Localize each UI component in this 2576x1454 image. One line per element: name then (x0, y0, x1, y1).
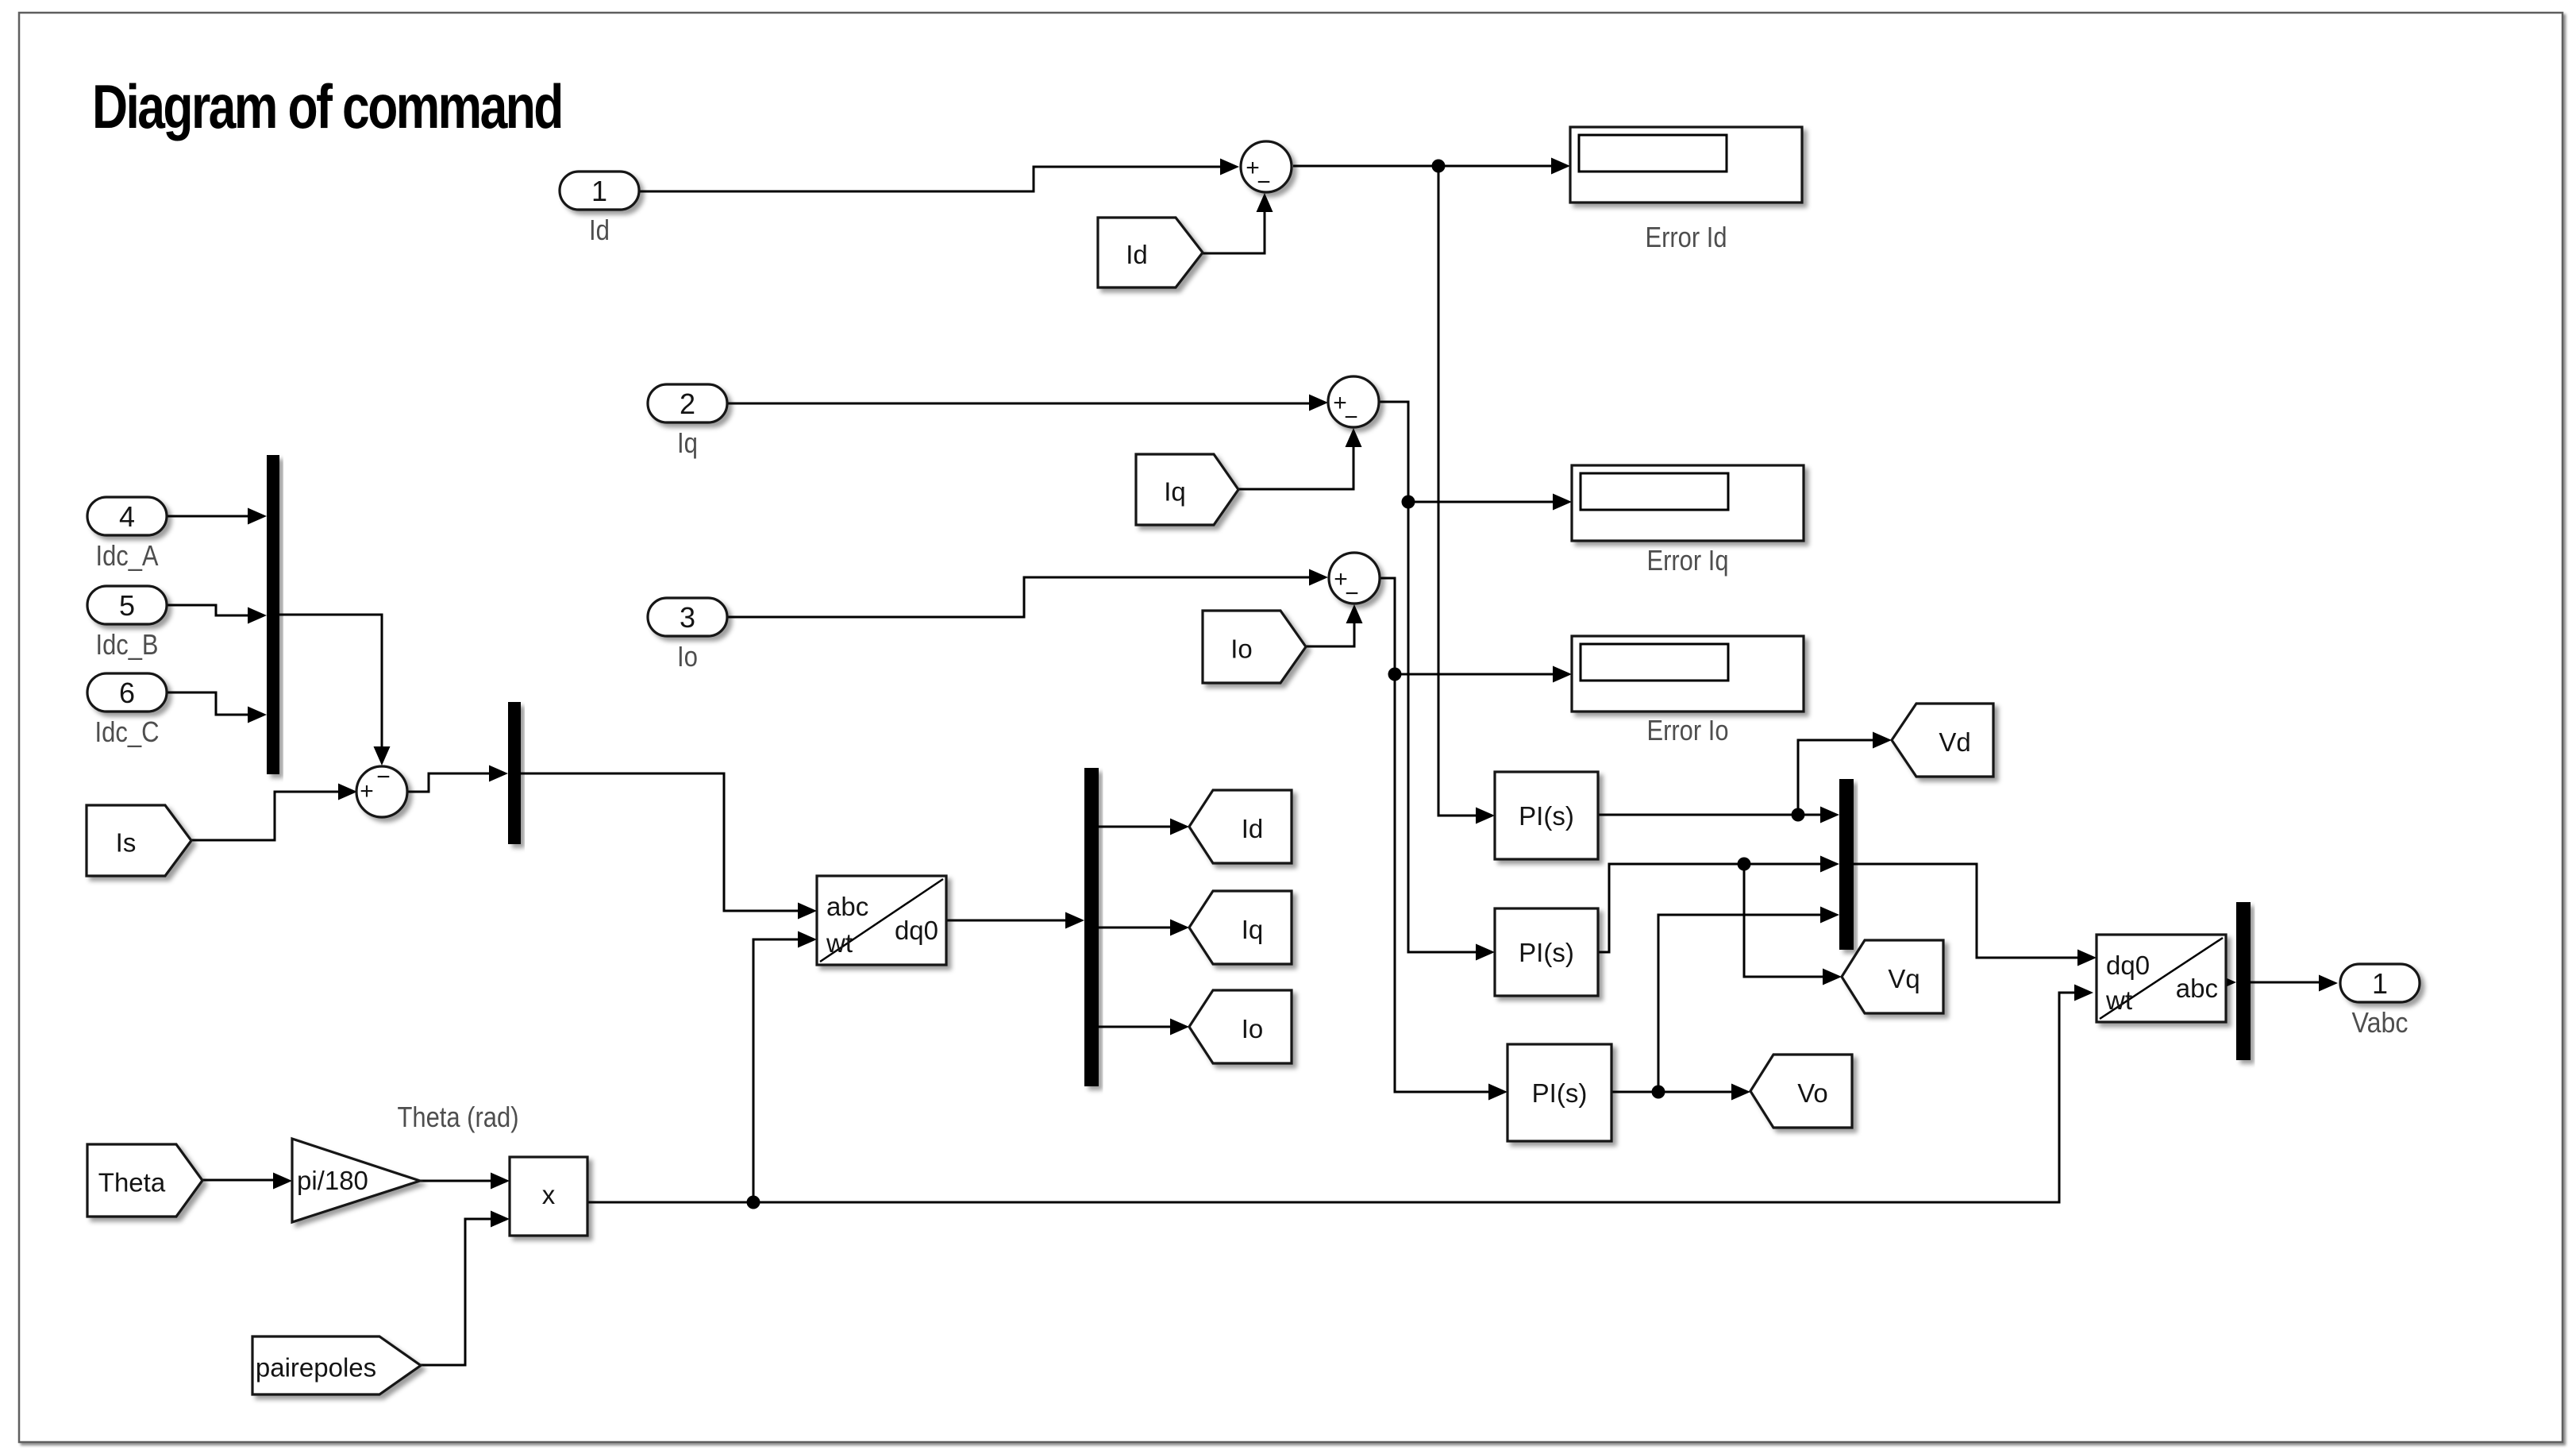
wire From-pairepoles to product (421, 1219, 493, 1365)
arrowhead into Sum2 bottom (1346, 428, 1362, 447)
scope Error Id (1570, 127, 1802, 202)
wire junction to Error Io scope (1395, 673, 1555, 676)
junction dot PI2 output (1738, 858, 1751, 871)
from tag Id (1098, 218, 1203, 287)
from tag Iq (1136, 454, 1238, 525)
wire In2 to Sum2 (726, 403, 1311, 405)
arrowhead into Goto Vq (1823, 969, 1842, 985)
svg-text:pairepoles: pairepoles (256, 1353, 376, 1383)
svg-text:Error Iq: Error Iq (1647, 544, 1729, 577)
wire In1 to Sum1 (640, 167, 1223, 191)
sum block Sum1 (Id error) (1241, 141, 1292, 195)
svg-text:4: 4 (119, 500, 135, 533)
arrowhead into Sum3 bottom (1346, 604, 1363, 623)
wire PI3 to Goto Vo (1611, 1091, 1734, 1093)
wire junction down to PI2 (1408, 502, 1478, 952)
demux Demux2 (2236, 902, 2251, 1060)
abc to dq0 transform block U1 (817, 876, 946, 965)
from tag pairepoles (252, 1336, 421, 1394)
arrowhead into Sum3 left (1309, 569, 1328, 586)
goto tag Iq (1189, 891, 1292, 964)
input port 3 Io (648, 598, 727, 636)
junction dot Sum2 output (1402, 496, 1415, 509)
wire dq0-abc to Demux2 (2226, 982, 2232, 984)
svg-text:+: + (360, 778, 374, 804)
svg-text:Io: Io (677, 640, 698, 673)
svg-text:wt: wt (2105, 985, 2132, 1015)
arrowhead into SumA left (338, 784, 357, 800)
junction dot PI1 output (1792, 808, 1805, 822)
wire abc-dq0 to Demux1 (946, 920, 1068, 922)
arrowhead into Goto Io (1170, 1019, 1189, 1036)
output port 1 Vabc (2340, 964, 2420, 1002)
wire branch up to Goto Vd (1798, 740, 1875, 815)
svg-text:Id: Id (589, 214, 610, 246)
arrowhead into Mux1 port3 (248, 707, 267, 723)
svg-text:Id: Id (1242, 814, 1264, 843)
gain block pi/180 (292, 1139, 420, 1222)
mux Mux3 (1839, 779, 1854, 950)
svg-text:Vd: Vd (1939, 727, 1970, 757)
svg-text:3: 3 (680, 601, 695, 634)
svg-text:Id: Id (1126, 240, 1148, 269)
svg-text:Error Id: Error Id (1646, 221, 1727, 253)
arrowhead into Demux1 (1065, 912, 1084, 929)
from tag Theta (87, 1144, 202, 1217)
svg-text:Vo: Vo (1797, 1078, 1828, 1108)
svg-text:Iq: Iq (677, 426, 698, 459)
arrowhead into product in1 (491, 1173, 510, 1190)
goto tag Io (1189, 990, 1292, 1063)
svg-text:5: 5 (119, 589, 135, 622)
from tag Is (87, 805, 191, 876)
wire Sum3 to junction (1380, 578, 1395, 674)
wire branch up to abc-dq0 wt (753, 939, 800, 1202)
wire From-Iq to Sum2 minus (1238, 434, 1353, 489)
input port 6 Idc_C (87, 673, 167, 712)
arrowhead into Sum1 bottom (1257, 193, 1273, 212)
arrowhead into Goto Iq (1170, 920, 1189, 936)
mux Mux2 (508, 702, 521, 844)
svg-text:Idc_C: Idc_C (95, 715, 160, 748)
arrowhead into Mux3 port3 (1820, 907, 1839, 924)
arrowhead into Mux2 (489, 766, 508, 782)
svg-text:Iq: Iq (1242, 915, 1264, 944)
sum block Sum3 (Io error) (1329, 553, 1380, 607)
svg-text:−: − (1344, 404, 1358, 430)
svg-text:Io: Io (1242, 1014, 1264, 1043)
wire In6 to Mux1 (165, 692, 250, 715)
svg-text:wt: wt (826, 928, 853, 958)
wire In5 to Mux1 (165, 605, 250, 615)
svg-text:Is: Is (116, 828, 137, 858)
svg-text:x: x (542, 1180, 556, 1209)
svg-text:Diagram of command: Diagram of command (92, 71, 562, 141)
wire From-Id to Sum1 minus (1203, 199, 1265, 253)
arrowhead into Mux1 port2 (248, 607, 267, 624)
svg-text:Idc_B: Idc_B (96, 628, 159, 661)
svg-text:dq0: dq0 (895, 916, 938, 945)
svg-text:1: 1 (2372, 967, 2388, 1000)
svg-text:Iq: Iq (1164, 477, 1186, 507)
arrowhead into Mux3 port2 (1820, 856, 1839, 873)
arrowhead into Goto Vd (1873, 732, 1892, 749)
wire In3 to Sum3 (726, 577, 1311, 617)
wire branch down to Goto Vq (1744, 864, 1825, 977)
arrowhead into B1 wt input (798, 931, 817, 948)
wire From-Theta to gain (202, 1179, 275, 1182)
arrowhead into B2 wt input (2074, 985, 2093, 1001)
arrowhead into abc input (798, 903, 817, 920)
wire From-Io to Sum3 minus (1306, 610, 1354, 646)
arrowhead into Sum1 left (1220, 159, 1239, 175)
svg-text:abc: abc (2176, 974, 2218, 1003)
goto tag Vq (1842, 940, 1943, 1013)
mux Mux1 (267, 455, 279, 774)
svg-text:−: − (376, 764, 391, 790)
arrowhead into PI1 (1476, 808, 1495, 824)
arrowhead into Mux3 port1 (1820, 807, 1839, 823)
svg-text:Idc_A: Idc_A (96, 539, 159, 572)
svg-text:−: − (1257, 169, 1271, 195)
arrowhead into product in2 (491, 1211, 510, 1228)
wire Demux1 to Goto Io (1099, 1026, 1172, 1028)
wire PI1 to Mux3 port1 (1598, 814, 1823, 816)
svg-text:Error Io: Error Io (1647, 714, 1729, 746)
wire junction down to PI3 (1395, 674, 1491, 1092)
arrowhead into Demux2 (2217, 974, 2236, 991)
arrowhead into PI3 (1488, 1084, 1507, 1101)
svg-text:abc: abc (826, 892, 868, 921)
svg-text:2: 2 (680, 388, 695, 420)
wire branch up to Mux3 port3 (1658, 915, 1823, 1092)
sum block Sum2 (Iq error) (1328, 376, 1379, 430)
dq0 to abc transform block U2 (2097, 935, 2226, 1022)
wire Sum1 branch down to PI1 (1438, 166, 1478, 816)
goto tag Vo (1750, 1055, 1852, 1128)
svg-text:PI(s): PI(s) (1532, 1078, 1588, 1108)
svg-text:dq0: dq0 (2106, 951, 2150, 980)
junction dot Sum3 output (1388, 668, 1402, 681)
junction dot product output (747, 1196, 760, 1209)
arrowhead into Out1 (2319, 975, 2338, 992)
wire Sum1 to Error Id scope (1293, 165, 1554, 168)
demux Demux1 (1084, 768, 1099, 1086)
svg-text:1: 1 (591, 175, 607, 207)
wire Mux2 to abc-dq0 block (521, 773, 800, 911)
wire In4 to Mux1 (165, 515, 250, 518)
arrowhead into Goto Vo (1731, 1084, 1750, 1101)
arrowhead into B2 dq0 input (2077, 950, 2097, 966)
wire Demux2 to Out1 (2251, 982, 2321, 984)
PI controller PI2 (1495, 908, 1598, 996)
svg-text:Theta (rad): Theta (rad) (398, 1101, 519, 1133)
wire Demux1 to Goto Iq (1099, 927, 1172, 929)
svg-text:6: 6 (119, 677, 135, 709)
junction dot PI3 output (1652, 1086, 1665, 1099)
wire gain to product (420, 1180, 493, 1182)
wire Sum2 to junction (1379, 402, 1408, 502)
input port 5 Idc_B (87, 586, 167, 624)
wire product output to dq0-abc wt (587, 993, 2077, 1202)
wire PI2 to Mux3 port2 (1598, 864, 1823, 952)
goto tag Id (1189, 790, 1292, 863)
wire From-Is to SumA (191, 792, 341, 840)
svg-text:Vabc: Vabc (2352, 1006, 2409, 1039)
scope Error Iq (1572, 465, 1804, 541)
arrowhead into Goto Id (1170, 819, 1189, 835)
svg-text:PI(s): PI(s) (1519, 801, 1574, 831)
arrowhead into gain (273, 1173, 292, 1190)
arrowhead into SumA top (374, 746, 391, 766)
PI controller PI1 (1495, 772, 1598, 859)
svg-text:pi/180: pi/180 (297, 1166, 368, 1195)
svg-text:Vq: Vq (1888, 964, 1919, 993)
PI controller PI3 (1507, 1044, 1611, 1141)
wire SumA to Mux2 (406, 773, 491, 792)
wire Mux3 to dq0-abc block (1854, 864, 2080, 958)
svg-text:−: − (1345, 580, 1359, 607)
arrowhead into Error Id (1551, 158, 1570, 175)
arrowhead into PI2 (1476, 944, 1495, 961)
from tag Io (1203, 611, 1306, 683)
sum block SumA (Idc sum minus Is) (356, 764, 407, 817)
input port 1 Id (560, 172, 639, 210)
arrowhead into Error Io (1553, 666, 1572, 683)
junction dot Sum1 output (1432, 160, 1446, 173)
svg-text:PI(s): PI(s) (1519, 938, 1574, 967)
arrowhead into Sum2 left (1309, 395, 1328, 411)
scope Error Io (1572, 636, 1804, 712)
goto tag Vd (1892, 704, 1993, 777)
input port 2 Iq (648, 384, 727, 422)
product block x (510, 1157, 587, 1236)
svg-text:Io: Io (1230, 634, 1253, 664)
wire junction to Error Iq scope (1408, 501, 1555, 503)
arrowhead into Mux1 port1 (248, 508, 267, 525)
svg-text:Theta: Theta (98, 1168, 166, 1198)
input port 4 Idc_A (87, 497, 167, 535)
wire Demux1 to Goto Id (1099, 826, 1172, 828)
wire Mux1 to SumA top (279, 615, 382, 750)
arrowhead into Error Iq (1553, 494, 1572, 511)
